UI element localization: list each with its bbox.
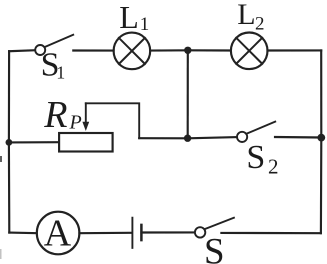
svg-text:R: R <box>43 94 67 136</box>
svg-text:L: L <box>119 0 139 35</box>
svg-text:P: P <box>69 112 82 134</box>
svg-text:S: S <box>204 232 225 264</box>
svg-text:1: 1 <box>140 14 150 35</box>
svg-text:S: S <box>246 139 265 176</box>
svg-text:A: A <box>44 213 72 255</box>
svg-text:2: 2 <box>268 155 279 179</box>
svg-text:L: L <box>237 0 255 31</box>
svg-text:1: 1 <box>56 62 65 82</box>
svg-text:2: 2 <box>255 13 265 34</box>
